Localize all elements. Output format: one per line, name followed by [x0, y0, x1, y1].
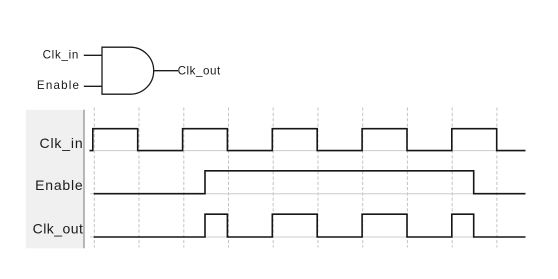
grid line t0: [93, 108, 95, 248]
waveform label panel: [26, 110, 84, 249]
Clk_out row zero baseline: [90, 236, 526, 238]
svg-text:Clk_out: Clk_out: [33, 221, 84, 237]
grid line t5: [317, 108, 319, 248]
node Clk_out (waveform row label): [33, 221, 84, 237]
Clk_in row zero baseline: [90, 150, 526, 152]
svg-text:Clk_in: Clk_in: [39, 135, 83, 151]
wire Clk_in to gate pin 1: [84, 54, 103, 56]
Enable row zero baseline: [90, 193, 526, 195]
grid line t4: [272, 108, 274, 248]
grid line t6: [362, 108, 364, 248]
node Enable (waveform row label): [35, 177, 83, 193]
grid line t1: [138, 108, 140, 248]
grid line t3: [228, 108, 230, 248]
grid line t9: [496, 108, 498, 248]
node Clk_in (waveform row label): [39, 135, 83, 151]
AND gate U1: [102, 47, 154, 94]
grid line t2: [183, 108, 185, 248]
wire Clk_out waveform trace: [94, 214, 526, 237]
svg-text:Enable: Enable: [37, 79, 80, 92]
node Clk_out (gate output label): [178, 64, 221, 77]
grid line t7: [406, 108, 408, 248]
wire Enable to gate pin 2: [84, 85, 103, 87]
waveform label panel right border: [83, 110, 85, 249]
svg-text:Enable: Enable: [35, 177, 83, 193]
node Clk_in (gate input label): [43, 48, 79, 61]
wire Clk_in waveform trace: [90, 129, 526, 151]
wire gate output to Clk_out: [154, 70, 178, 72]
wire Enable waveform trace: [94, 171, 526, 194]
svg-text:Clk_out: Clk_out: [178, 64, 221, 77]
grid line t8: [451, 108, 453, 248]
svg-text:Clk_in: Clk_in: [43, 48, 79, 61]
node Enable (gate input label): [37, 79, 80, 92]
